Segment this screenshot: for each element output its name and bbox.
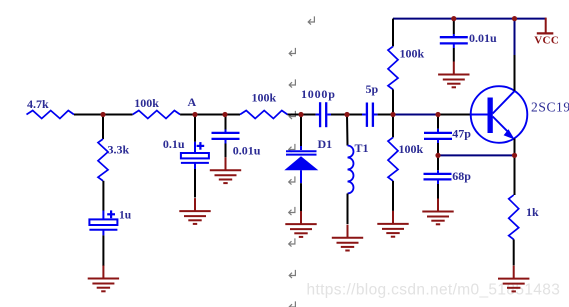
svg-text:1u: 1u [119, 210, 132, 222]
resistor R4 100k top [388, 46, 398, 89]
wire rail to collector [514, 19, 516, 55]
power VCC [545, 18, 547, 33]
return mark 2 [289, 48, 295, 56]
capacitor C5 0.01u top [453, 19, 455, 34]
base pin wire [438, 114, 471, 116]
wire T1 to ground [347, 194, 349, 225]
svg-text:100k: 100k [400, 47, 425, 61]
ground (R5) [392, 211, 394, 224]
capacitor C1 1u polarized [102, 181, 104, 211]
resistor R2 100k [103, 114, 133, 116]
resistor R6 1k [514, 155, 516, 195]
wire C1 to ground [102, 235, 104, 266]
plus sign C2 [197, 145, 205, 147]
ground (T1) [347, 225, 349, 238]
junction dot emitter net left [435, 153, 440, 158]
return mark 7 [289, 207, 295, 215]
capacitor C2 0.1u polarized [194, 115, 196, 142]
ground (D1) [300, 211, 302, 224]
svg-text:0.01u: 0.01u [233, 143, 261, 157]
capacitor C7 68p [437, 155, 439, 170]
wire D1 to ground [300, 183, 302, 211]
return mark 5 [289, 144, 295, 152]
svg-text:2SC1923: 2SC1923 [531, 100, 569, 115]
ground (C3) [225, 157, 227, 170]
wire R5-node to C6 node [393, 114, 438, 116]
svg-text:0.1u: 0.1u [163, 137, 185, 151]
wire R5 to ground [392, 181, 394, 211]
svg-text:T1: T1 [355, 141, 369, 155]
return mark 8 [289, 238, 295, 246]
junction dot T1 node [344, 112, 349, 117]
return mark 1 [308, 16, 314, 24]
ground (0.1u) [194, 198, 196, 211]
return mark 10 [289, 301, 295, 307]
wire C3 to ground [225, 144, 227, 158]
svg-text:0.01u: 0.01u [469, 31, 497, 45]
junction dot node A [192, 112, 197, 117]
junction dot rail C5 [451, 16, 456, 21]
svg-text:A: A [188, 95, 197, 109]
junction dot C6 node [435, 112, 440, 117]
resistor R1 4.7k [27, 111, 75, 119]
pin rail to R4 [392, 19, 394, 47]
junction dot R5 node [390, 112, 395, 117]
junction dot D1 node [298, 112, 303, 117]
return mark 9 [289, 270, 295, 278]
wire top rail [393, 18, 546, 20]
svg-text:3.3k: 3.3k [108, 143, 130, 157]
svg-text:VCC: VCC [534, 35, 559, 47]
svg-text:68p: 68p [452, 169, 471, 183]
collector pin [514, 55, 516, 91]
capacitor C6 47p [437, 115, 439, 129]
return mark 4 [289, 111, 295, 119]
svg-text:1k: 1k [526, 205, 539, 219]
plus sign C1 [107, 213, 115, 215]
junction dot C3 node [222, 112, 227, 117]
ground (C5) [453, 62, 455, 75]
ground (1k) [513, 266, 515, 279]
svg-text:D1: D1 [318, 137, 333, 151]
resistor R3 100k [225, 114, 240, 116]
svg-text:100k: 100k [252, 91, 277, 105]
resistor R5 100k [392, 115, 394, 138]
wire emitter net [438, 154, 515, 156]
wire C2 to ground [194, 169, 196, 198]
wire C5 to ground [453, 48, 455, 62]
svg-text:47p: 47p [452, 127, 471, 141]
resistor R7 3.3k [102, 115, 104, 140]
wire A to C3 junction [195, 114, 225, 116]
svg-text:4.7k: 4.7k [27, 97, 49, 111]
junction dot rail collector [512, 16, 517, 21]
return mark 6 [289, 176, 295, 184]
junction dot emitter net right [512, 153, 517, 158]
wire C7 to ground [437, 184, 439, 199]
ground (1u) [102, 266, 104, 279]
svg-text:5p: 5p [366, 82, 379, 96]
svg-text:100k: 100k [134, 96, 159, 110]
svg-text:100k: 100k [399, 142, 424, 156]
wire R6 to ground [513, 239, 515, 265]
ground (68p) [437, 199, 439, 212]
emitter pin [514, 139, 516, 156]
transistor Q1 2SC1923 [471, 86, 528, 143]
capacitor 1000p [301, 114, 316, 116]
return mark 3 [289, 79, 295, 87]
junction dot node 1 [100, 112, 105, 117]
capacitor C3 0.01u [225, 115, 227, 130]
svg-text:1000p: 1000p [301, 87, 336, 101]
diode D1 varactor [300, 115, 302, 147]
capacitor 5p [347, 114, 362, 116]
inductor T1 [346, 115, 349, 146]
